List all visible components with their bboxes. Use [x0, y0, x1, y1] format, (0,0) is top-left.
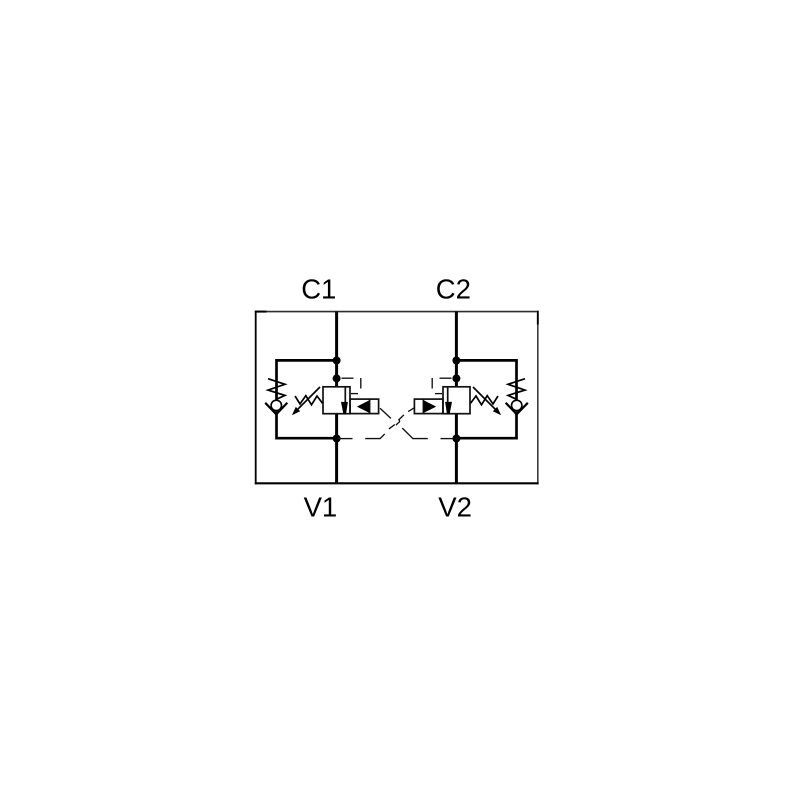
- check valve CV1 spring: [268, 379, 285, 400]
- crossed pilot line right-to-left dash 2: [398, 415, 404, 420]
- crossed pilot line right-to-left dash 5: [337, 438, 353, 440]
- svg-text:C1: C1: [301, 273, 336, 304]
- crossed pilot line right-to-left hop over: [396, 420, 400, 425]
- relief valve RV1 flow arrow head: [341, 402, 348, 414]
- node junction dot left pilot: [333, 374, 341, 382]
- relief valve RV1 body box: [323, 387, 350, 414]
- relief valve RV1 pilot piston box: [350, 399, 379, 414]
- relief valve RV2 pilot piston divider: [422, 399, 424, 414]
- wire V2 lower main line: [455, 414, 458, 484]
- wire left bypass loop upper: [277, 360, 337, 399]
- wire V1 lower main line: [335, 414, 338, 484]
- pilot sense dashed line left dash B: [360, 378, 362, 389]
- crossed pilot line right-to-left dash 1: [408, 408, 414, 412]
- crossed pilot line right-to-left dash 3: [389, 425, 395, 429]
- relief valve RV2 adjustment arrow: [473, 387, 498, 412]
- svg-text:V1: V1: [304, 492, 338, 523]
- relief valve RV1 adjustment arrow: [295, 387, 320, 412]
- enclosure boundary bottom edge: [255, 482, 539, 484]
- enclosure boundary right edge: [537, 311, 539, 484]
- relief valve RV1 flow arrow shaft: [344, 387, 346, 402]
- svg-text:C2: C2: [436, 273, 471, 304]
- wire left bypass loop lower: [277, 411, 337, 438]
- node junction dot right top: [452, 357, 460, 365]
- relief valve RV2 adjustable spring: [470, 396, 498, 405]
- wire C2 upper main line: [455, 312, 458, 387]
- relief valve RV2 pilot piston triangle: [424, 400, 437, 413]
- relief valve RV2 body box: [443, 387, 470, 414]
- node junction dot right bottom: [452, 435, 460, 443]
- pilot sense dashed line right dash C: [435, 393, 442, 395]
- relief valve RV2 flow arrow head: [445, 402, 452, 414]
- crossed pilot line left-to-right dash 3: [441, 438, 457, 440]
- pilot sense dashed line left dash C: [351, 393, 358, 395]
- crossed pilot line right-to-left dash 4 corner: [365, 434, 385, 439]
- relief valve RV1 pilot piston triangle: [357, 400, 370, 413]
- relief valve RV2 flow arrow shaft: [447, 387, 449, 402]
- enclosure boundary right edge corner cap: [537, 311, 539, 325]
- svg-text:V2: V2: [438, 492, 472, 523]
- node junction dot right pilot: [452, 374, 460, 382]
- enclosure boundary left edge: [255, 311, 257, 485]
- enclosure boundary top edge: [255, 311, 539, 313]
- wire right bypass loop upper: [456, 360, 516, 399]
- relief valve RV1 adjustable spring: [295, 396, 323, 405]
- relief valve RV2 pilot piston box: [414, 399, 443, 414]
- pilot sense dashed line left dash A: [342, 377, 354, 379]
- node junction dot left bottom: [333, 435, 341, 443]
- crossed pilot line left-to-right dash 1: [380, 408, 391, 418]
- crossed pilot line left-to-right dash 2 corner: [402, 428, 428, 439]
- check valve CV2 ball: [512, 400, 522, 410]
- check valve CV2 seat: [506, 403, 528, 415]
- check valve CV2 spring: [508, 379, 525, 400]
- wire C1 upper main line: [335, 312, 338, 387]
- relief valve RV1 adjustment arrow head: [292, 407, 300, 415]
- relief valve RV1 pilot piston divider: [369, 399, 371, 414]
- pilot sense dashed line right dash A: [440, 377, 452, 379]
- wire right bypass loop lower: [456, 411, 516, 438]
- check valve CV1 ball: [271, 400, 281, 410]
- relief valve RV2 adjustment arrow head: [493, 407, 501, 415]
- check valve CV1 seat: [265, 403, 287, 415]
- pilot sense dashed line right dash B: [431, 378, 433, 389]
- node junction dot left top: [333, 357, 341, 365]
- enclosure boundary top edge corner cap: [255, 311, 267, 313]
